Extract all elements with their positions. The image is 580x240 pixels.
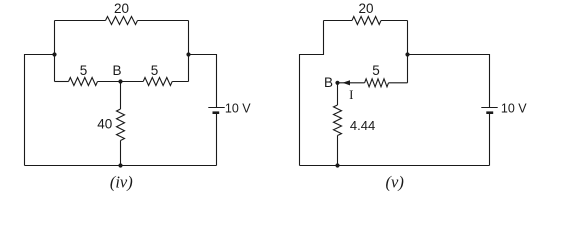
- svg-text:B: B: [324, 75, 333, 90]
- svg-text:(iv): (iv): [110, 173, 133, 192]
- svg-text:I: I: [349, 87, 353, 102]
- svg-text:4.44: 4.44: [350, 118, 375, 133]
- svg-text:10 V: 10 V: [225, 102, 251, 116]
- svg-text:40: 40: [97, 117, 112, 132]
- svg-text:B: B: [112, 63, 121, 78]
- svg-text:5: 5: [80, 63, 88, 78]
- svg-text:20: 20: [358, 1, 373, 16]
- svg-text:10 V: 10 V: [501, 102, 527, 116]
- svg-text:20: 20: [114, 1, 129, 16]
- svg-text:(v): (v): [386, 173, 404, 192]
- svg-text:5: 5: [151, 63, 159, 78]
- svg-text:5: 5: [372, 63, 380, 78]
